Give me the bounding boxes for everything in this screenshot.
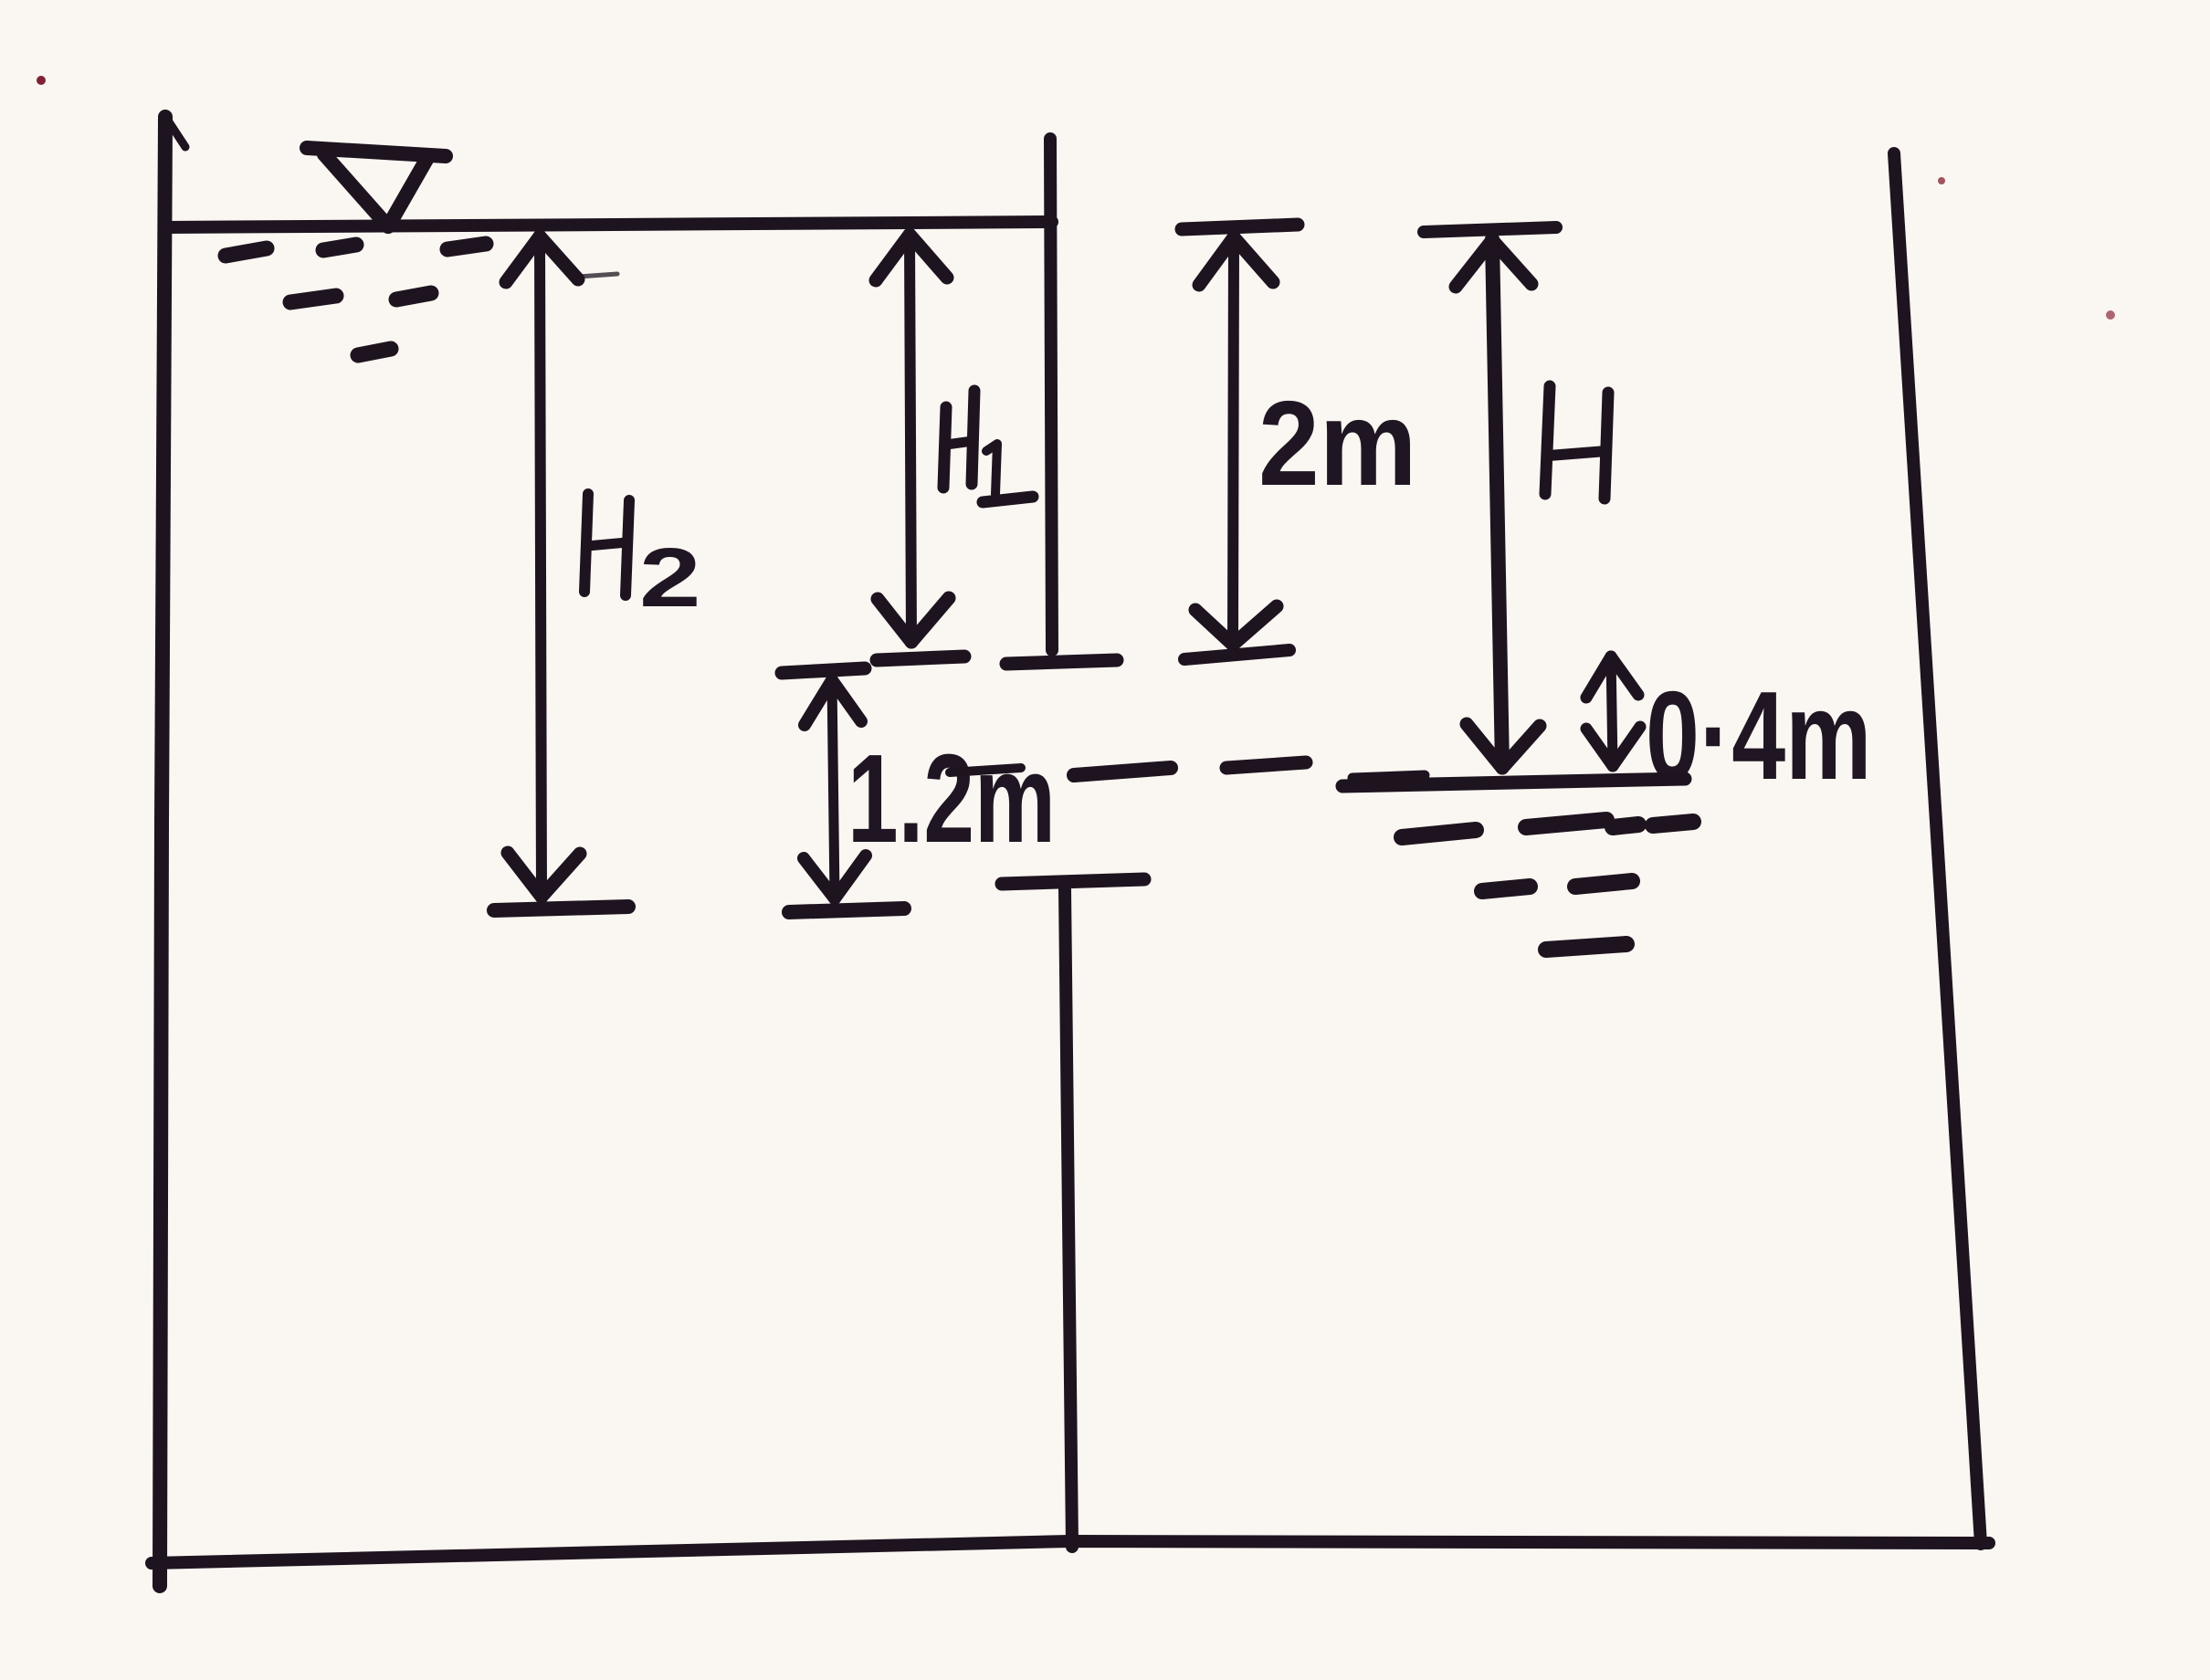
svg-text:2m: 2m	[1258, 376, 1416, 511]
H1 dimension arrow	[876, 235, 949, 642]
upper partition wall	[1050, 139, 1052, 650]
red ink speck mid-right	[2106, 310, 2115, 320]
dashes under right water surface	[1402, 820, 1693, 950]
red ink speck top-left	[37, 76, 46, 85]
lower partition wall	[1065, 889, 1072, 1547]
2m dimension arrow	[1182, 225, 1298, 659]
pen scratch near H2 arrowhead	[578, 274, 617, 277]
dashes under left water surface	[226, 244, 486, 355]
H dimension arrow	[1424, 227, 1556, 768]
label H2	[584, 494, 629, 595]
red ink speck right	[1938, 177, 1945, 184]
0.4m dimension arrow	[1586, 656, 1640, 766]
nabla water-surface symbol	[307, 148, 446, 226]
label H1	[943, 391, 1033, 502]
lower partition end cap	[1002, 879, 1144, 884]
ground tick under H1 arrow	[877, 656, 964, 660]
1.2m dimension arrow	[782, 668, 866, 898]
ground tick under 1.2m arrow	[789, 908, 904, 912]
svg-text:1.2m: 1.2m	[847, 728, 1056, 869]
bottom wall	[152, 1541, 1989, 1563]
upper partition end cap	[1006, 660, 1117, 664]
label H	[1545, 386, 1608, 499]
right water surface line	[1342, 779, 1685, 786]
svg-text:2: 2	[639, 530, 701, 624]
dashed level line between tanks	[1074, 762, 1306, 775]
ground tick under H2 arrow	[494, 907, 628, 910]
right tank wall	[1894, 153, 1981, 1544]
water surface line left tank	[165, 222, 1052, 227]
bar over m of 1.2m	[950, 768, 1021, 772]
H2 dimension arrow	[506, 236, 580, 897]
left tank wall	[160, 117, 185, 1586]
